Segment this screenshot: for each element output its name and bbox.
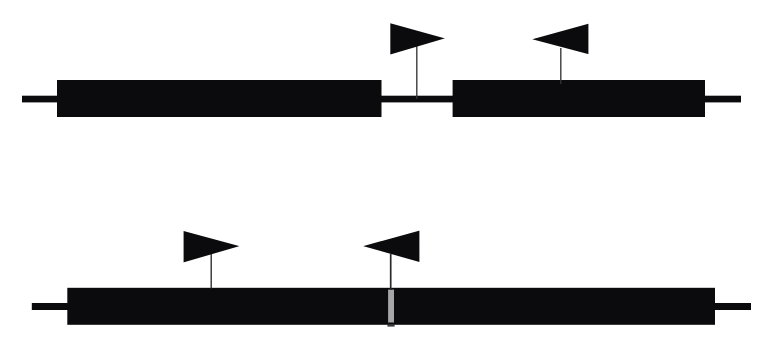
primer flag F1 head (right-pointing) — [390, 23, 445, 54]
exon bar E1 (top row, left) — [57, 80, 382, 117]
primer flag F1 stem (top row, forward) — [416, 46, 418, 99]
wire: bottom-right intron line — [715, 303, 751, 310]
wire: bottom-left intron line — [32, 303, 68, 310]
primer flag R2 stem (bottom row, reverse) — [390, 254, 392, 290]
primer flag R1 head (left-pointing) — [532, 24, 588, 54]
exon bar E3 (bottom row) — [67, 288, 715, 325]
tick below slot — [387, 325, 394, 327]
wire: top-middle intron line — [382, 96, 454, 103]
wire: top-left intron line — [22, 96, 58, 103]
primer flag F2 stem (bottom row, forward) — [210, 253, 212, 289]
primer flag R2 head (left-pointing) — [363, 231, 419, 262]
primer flag R1 stem (top row, reverse) — [560, 48, 562, 84]
insertion slot (gray) in bottom exon — [388, 290, 394, 323]
primer flag F2 head (right-pointing) — [184, 231, 240, 262]
wire: top-right intron line — [705, 96, 741, 103]
exon bar E2 (top row, right) — [453, 80, 705, 117]
